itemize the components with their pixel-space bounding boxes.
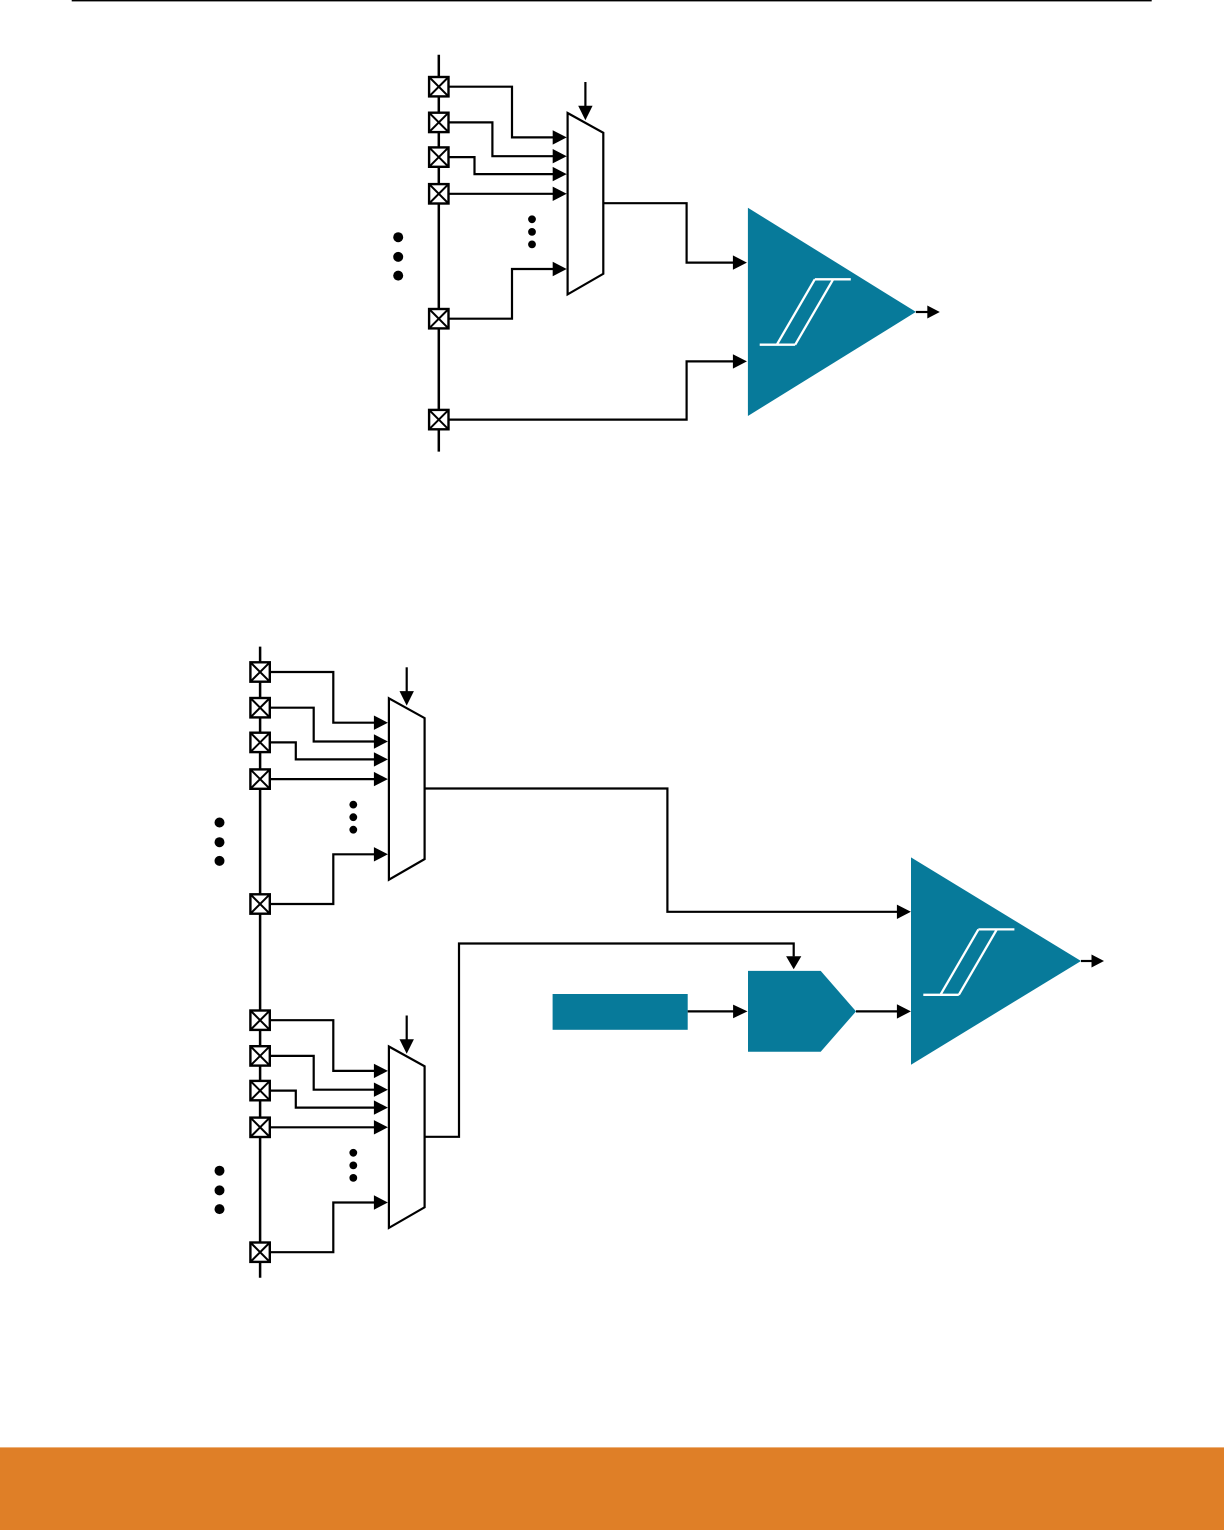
diagram2 wire tapA3 to upper mux input3 — [261, 742, 388, 766]
diagram2 wire tapA5 to upper mux input5 — [261, 847, 388, 904]
diagram1 wire tap6 to comparator inverting input — [440, 354, 747, 419]
diagram2 wire tapB3 to lower mux input3 — [261, 1091, 388, 1115]
diagram2 hysteresis symbol — [923, 929, 1014, 994]
diagram2 wire lower mux output to scaler select input — [425, 944, 802, 1137]
diagram1 wire tap2 to mux input2 — [440, 122, 567, 163]
diagram1 wire tap1 to mux input1 — [440, 87, 567, 145]
diagram1 wire tap5 to mux input5 — [440, 262, 567, 319]
top rule — [72, 0, 1152, 1]
diagram2 wire tapB4 to lower mux input4 — [261, 1120, 388, 1134]
diagram2 wire tapB2 to lower mux input2 — [261, 1056, 388, 1097]
diagram2 comparator output wire — [1081, 955, 1104, 968]
diagram1 comparator output wire — [916, 306, 940, 319]
footer orange band — [0, 1447, 1224, 1530]
diagram2 input tap switch B3 — [250, 1081, 269, 1100]
diagram1 hysteresis symbol — [760, 279, 851, 344]
diagram2 upper mux input ellipsis dots — [349, 801, 357, 834]
diagram2 lower analog mux — [389, 1047, 425, 1228]
diagram2 input tap switch B1 — [250, 1011, 269, 1030]
diagram2 comparator — [911, 857, 1081, 1064]
diagram1 wire tap4 to mux input4 — [440, 187, 567, 201]
diagram1 input tap switch 3 — [429, 147, 448, 166]
diagram2 upper analog mux — [389, 698, 425, 879]
diagram2 lower mux input ellipsis dots — [349, 1149, 357, 1182]
diagram2 wire tapA4 to upper mux input4 — [261, 772, 388, 786]
diagram2 upper mux select arrow — [400, 667, 414, 705]
diagram2 wire scaler output to comparator inverting input — [856, 1004, 911, 1018]
diagram1 analog input bus — [438, 55, 441, 452]
diagram2 input tap switch A1 — [250, 662, 269, 681]
diagram1 input tap switch 5 — [429, 309, 448, 328]
diagram2 input tap switch A4 — [250, 769, 269, 788]
diagram1 input tap switch 1 — [429, 77, 448, 96]
diagram1 input tap switch 2 — [429, 113, 448, 132]
diagram1 wire mux output to comparator noninverting input — [603, 203, 747, 270]
diagram2 input tap switch A5 — [250, 894, 269, 913]
diagram1 mux select arrow — [578, 82, 592, 120]
diagram1 input tap switch 4 — [429, 184, 448, 203]
diagram2 lower bus ellipsis dots — [215, 1166, 225, 1214]
diagram2 wire tapB1 to lower mux input1 — [261, 1020, 388, 1078]
diagram2 upper bus ellipsis dots — [215, 818, 225, 866]
diagram2 input tap switch B5 — [250, 1243, 269, 1262]
diagram2 wire tapB5 to lower mux input5 — [261, 1195, 388, 1252]
diagram2 input tap switch A2 — [250, 698, 269, 717]
diagram2 input tap switch B4 — [250, 1118, 269, 1137]
diagram2 wire tapA1 to upper mux input1 — [261, 672, 388, 730]
diagram1 bus ellipsis dots — [393, 232, 403, 280]
diagram2 input tap switch A3 — [250, 733, 269, 752]
diagram1 analog mux — [568, 113, 604, 294]
diagram2 lower mux select arrow — [400, 1016, 414, 1054]
diagram2 DAC block — [553, 994, 688, 1030]
diagram1 wire tap3 to mux input3 — [440, 157, 567, 181]
diagram2 analog input bus — [259, 647, 262, 1278]
diagram2 wire upper mux output to comparator noninverting input — [425, 789, 911, 920]
diagram2 scaler pentagon block — [748, 971, 856, 1052]
diagram1 comparator — [748, 208, 916, 416]
diagram2 input tap switch B2 — [250, 1046, 269, 1065]
diagram2 wire tapA2 to upper mux input2 — [261, 708, 388, 749]
diagram2 wire DAC output to scaler — [688, 1005, 748, 1019]
diagram1 mux input ellipsis dots — [528, 215, 536, 248]
diagram1 input tap switch 6 — [429, 410, 448, 429]
